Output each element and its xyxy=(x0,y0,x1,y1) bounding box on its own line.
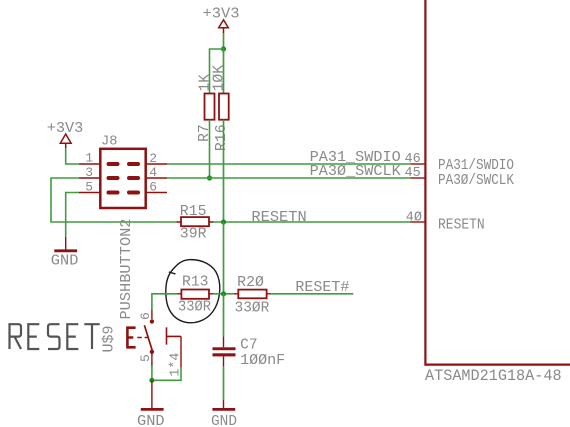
capacitor C7 xyxy=(213,336,236,366)
resistor R15 stubs xyxy=(177,221,214,223)
svg-text:C7: C7 xyxy=(240,337,258,353)
wire +3V3 to junction xyxy=(223,33,225,49)
resistor R15 xyxy=(181,217,209,226)
svg-text:R2Ø: R2Ø xyxy=(237,275,264,291)
svg-text:PA31/SWDIO: PA31/SWDIO xyxy=(438,158,514,174)
svg-text:PA3Ø_SWCLK: PA3Ø_SWCLK xyxy=(310,164,401,180)
svg-text:6: 6 xyxy=(138,312,153,320)
svg-text:39R: 39R xyxy=(180,227,207,243)
svg-text:2: 2 xyxy=(149,151,157,166)
pin 5 stub xyxy=(79,192,100,194)
pin 5 contact xyxy=(150,350,154,354)
switch lever xyxy=(144,325,152,351)
svg-text:33ØR: 33ØR xyxy=(235,300,270,316)
svg-text:4: 4 xyxy=(149,165,157,180)
power symbol +3V3 top triangle xyxy=(219,20,229,33)
svg-text:RESETN: RESETN xyxy=(438,218,485,234)
label RESET big xyxy=(10,324,100,349)
wire J8 pin3 to RESETN row xyxy=(51,178,177,222)
power symbol +3V3 left triangle xyxy=(60,134,71,148)
pin 4 stub xyxy=(146,177,167,179)
ground GND C7 symbol xyxy=(212,400,235,409)
wire junction to R16 xyxy=(223,49,225,94)
ground GND switch symbol xyxy=(141,380,164,409)
svg-text:GND: GND xyxy=(51,254,79,270)
resistor R7 xyxy=(205,94,215,120)
resistor R20 xyxy=(238,290,266,299)
svg-text:RESETN: RESETN xyxy=(251,210,306,226)
svg-text:RESET#: RESET# xyxy=(295,280,349,296)
wire net PA31_SWDIO J8 pin2 to IC xyxy=(167,163,411,165)
IC pin 40 stub xyxy=(411,221,426,223)
resistor R13 stubs xyxy=(177,293,214,295)
svg-text:4Ø: 4Ø xyxy=(406,210,422,225)
svg-text:PA3Ø/SWCLK: PA3Ø/SWCLK xyxy=(438,173,514,189)
wire R16 bottom to RESETN row xyxy=(223,120,225,222)
svg-text:R16: R16 xyxy=(214,124,230,151)
node junction RESETN column xyxy=(221,219,226,224)
switch S1 pushbutton xyxy=(126,309,183,376)
pin 5 stem xyxy=(151,354,153,367)
pin 1 stub xyxy=(79,163,100,165)
wire net RESETN to IC xyxy=(214,221,411,223)
wire RESETN column down to RESET# row xyxy=(223,222,225,294)
svg-text:R7: R7 xyxy=(197,124,213,142)
node junction +3V3 pullups xyxy=(221,46,226,51)
wire +3V3 left to J8 pin1 xyxy=(66,148,79,164)
svg-text:R13: R13 xyxy=(182,275,209,291)
ground GND left symbol xyxy=(54,237,77,251)
wire R13 to R20 xyxy=(214,293,234,295)
svg-text:1ØØnF: 1ØØnF xyxy=(240,353,285,369)
connector J8 box xyxy=(100,149,145,208)
svg-text:GND: GND xyxy=(137,414,165,427)
pin 3 stub xyxy=(79,177,100,179)
node junction R7 SWCLK xyxy=(207,175,212,180)
svg-text:1ØK: 1ØK xyxy=(212,65,228,92)
pin 6 stem xyxy=(151,309,153,319)
wire switch pins to GND junction xyxy=(152,366,181,380)
node junction switch GND xyxy=(149,378,154,383)
IC pin 45 stub xyxy=(411,177,426,179)
svg-text:U$9: U$9 xyxy=(101,326,117,353)
svg-text:5: 5 xyxy=(138,354,153,362)
IC U1 ATSAMD21G18A box xyxy=(425,0,570,365)
resistor R13 xyxy=(181,290,209,299)
svg-text:45: 45 xyxy=(404,166,420,181)
wire J8 pin5 to GND xyxy=(66,193,79,238)
wire junction to R7 branch xyxy=(210,49,224,94)
svg-text:33ØR: 33ØR xyxy=(178,299,211,315)
svg-text:GND: GND xyxy=(211,414,237,427)
pin 6 stub xyxy=(146,192,167,194)
wire RESET# column to C7 xyxy=(223,294,225,337)
resistor R16 xyxy=(219,94,229,120)
svg-text:1: 1 xyxy=(85,150,93,165)
wire switch pin6 to R13 xyxy=(152,294,177,310)
J8 pad bars xyxy=(109,164,139,193)
svg-text:J8: J8 xyxy=(101,135,118,150)
wire net RESET# xyxy=(271,293,353,295)
pin 4 wire red xyxy=(180,336,182,367)
svg-text:46: 46 xyxy=(404,152,420,167)
wire net PA30_SWCLK J8 pin4 to IC xyxy=(167,177,411,179)
svg-text:6: 6 xyxy=(149,180,157,195)
IC pin 46 stub xyxy=(411,163,426,165)
annotation ellipse around R13 xyxy=(166,260,220,323)
svg-text:+3V3: +3V3 xyxy=(203,6,240,22)
actuator dash link xyxy=(137,337,148,339)
svg-text:3: 3 xyxy=(85,165,93,180)
pin 6 contact xyxy=(150,319,154,323)
svg-text:PUSHBUTTON2: PUSHBUTTON2 xyxy=(118,219,135,320)
node junction RESET# column xyxy=(221,291,226,296)
wire R7 bottom to SWCLK row xyxy=(209,120,211,178)
pin 2 stub xyxy=(146,163,167,165)
actuator E xyxy=(126,327,135,349)
svg-text:ATSAMD21G18A-48: ATSAMD21G18A-48 xyxy=(425,367,562,385)
pin 4 tee xyxy=(167,327,182,344)
wire C7 to GND xyxy=(223,367,225,400)
resistor R20 stubs xyxy=(234,293,271,295)
svg-text:5: 5 xyxy=(85,180,93,195)
